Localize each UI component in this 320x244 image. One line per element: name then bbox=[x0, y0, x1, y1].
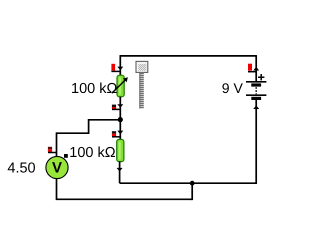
svg-text:100 kΩ: 100 kΩ bbox=[69, 145, 115, 161]
wire voltmeter bottom bbox=[56, 179, 58, 200]
svg-text:9 V: 9 V bbox=[222, 80, 244, 96]
junction node A bbox=[118, 117, 123, 122]
probe flag M3 black/red bbox=[112, 105, 116, 107]
battery dotted middle bbox=[255, 87, 257, 94]
slider screw shaft edge bbox=[139, 73, 141, 109]
slider screw shaft bbox=[139, 73, 143, 109]
battery plate short 1 bbox=[251, 83, 261, 86]
junction node B bbox=[190, 181, 195, 186]
current arrow A1 down bbox=[117, 67, 123, 71]
wire bottom loop horizontal bbox=[56, 198, 193, 200]
current arrow A4 down bbox=[117, 168, 123, 172]
wire junction down to resistor R2 bbox=[119, 120, 121, 140]
label anchor dot bbox=[64, 154, 68, 158]
resistor R2 body bbox=[117, 139, 124, 161]
wire bottom horizontal R2 to battery bbox=[120, 182, 257, 184]
wire top horizontal bbox=[120, 55, 256, 57]
battery plate long 2 bbox=[246, 94, 266, 96]
wire battery bottom vertical bbox=[255, 100, 257, 184]
svg-text:4.50: 4.50 bbox=[7, 160, 35, 176]
wire below potentiometer bbox=[119, 97, 121, 120]
wire battery top vertical bbox=[255, 55, 257, 81]
potentiometer R1 highlight bbox=[119, 77, 121, 95]
wire staircase vertical1 bbox=[88, 119, 90, 133]
probe flag M5 dark/red bbox=[48, 147, 52, 150]
svg-text:100 kΩ: 100 kΩ bbox=[71, 81, 117, 97]
battery B1 plus sign bbox=[258, 74, 264, 80]
red probe flag M2 bbox=[111, 64, 115, 71]
red probe flag M6 bbox=[248, 64, 252, 71]
flag stem M2 bbox=[111, 70, 120, 72]
potentiometer arrow diagonal bbox=[112, 80, 126, 94]
current arrow A5 up bbox=[253, 67, 259, 71]
potentiometer R1 body bbox=[117, 75, 124, 97]
current arrow A2 down bbox=[117, 104, 123, 108]
resistor R2 highlight bbox=[119, 141, 121, 159]
wire below R2 bbox=[119, 161, 121, 183]
svg-text:V: V bbox=[52, 160, 62, 177]
current arrow A6 up bbox=[253, 105, 259, 109]
flag stem M5 bbox=[48, 152, 57, 154]
wire left vertical to potentiometer bbox=[119, 55, 121, 75]
wire staircase vertical2 to voltmeter bbox=[56, 132, 58, 156]
wire junction to staircase step1 bbox=[89, 119, 121, 121]
slider screw head bbox=[136, 61, 148, 72]
potentiometer arrowhead bbox=[123, 77, 128, 82]
wire loop vertical up to node B bbox=[191, 183, 193, 200]
flag stem M3 bbox=[112, 108, 120, 110]
current arrow A3 down bbox=[117, 131, 123, 135]
flag stem M4 bbox=[112, 136, 120, 138]
voltmeter U1 circle bbox=[46, 156, 68, 178]
battery plate short 2 bbox=[251, 97, 261, 100]
flag stem M6 bbox=[248, 71, 256, 73]
wire staircase horizontal2 bbox=[57, 132, 90, 134]
battery plate long 1 bbox=[246, 81, 266, 83]
slider screw head texture bbox=[138, 64, 145, 71]
probe flag M4 black/red bbox=[112, 131, 116, 134]
